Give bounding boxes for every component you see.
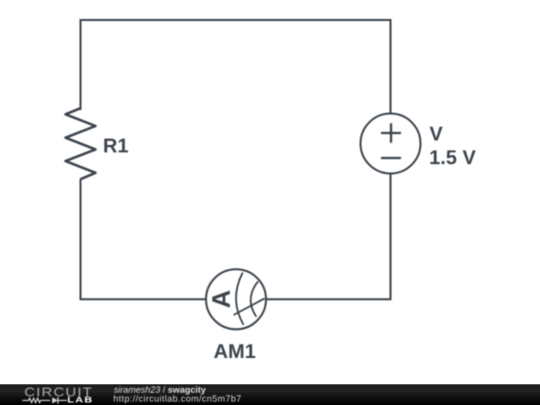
logo LAB [68, 397, 92, 403]
wire: left side up from R1, across top, down to V+ terminal [81, 20, 391, 113]
ammeter letter A [212, 291, 230, 308]
wire: left side down from R1, along bottom to AM1 left terminal [81, 179, 207, 299]
ammeter needle [234, 298, 265, 315]
footer credit line 1 [114, 386, 206, 394]
resistor R1 [66, 108, 96, 179]
logo CIRCUIT [25, 388, 91, 397]
label R1 [104, 139, 128, 153]
logo resistor squiggle + diode [22, 398, 67, 402]
voltage source minus sign [381, 157, 401, 159]
wire: from AM1 right terminal along bottom, up right side to V- terminal [267, 174, 391, 300]
ammeter scale arc 1 [236, 273, 244, 325]
label V [430, 127, 443, 141]
label AM1 [214, 344, 255, 358]
voltage source V (1.5 V) circle body [361, 114, 421, 174]
voltage source plus sign [381, 123, 401, 143]
ammeter scale arc 2 [251, 281, 258, 316]
label 1.5 V [430, 150, 475, 164]
ammeter AM1 circle body [206, 269, 266, 329]
footer url line 2 [114, 395, 241, 403]
